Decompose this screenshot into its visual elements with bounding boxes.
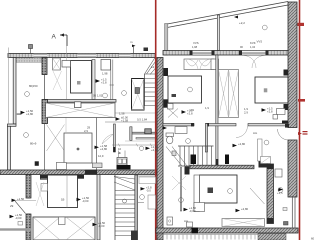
svg-text:12,9: 12,9 (98, 154, 104, 158)
small box lower-left room (18, 222, 23, 226)
door swing hall (102, 134, 114, 144)
svg-text:2,9: 2,9 (244, 111, 248, 115)
wardrobe band between bedrooms (219, 70, 239, 118)
svg-text:+2,8: +2,8 (267, 110, 273, 114)
red section line 1 (155, 0, 157, 240)
flag stairs16 (139, 145, 158, 152)
thin line y141 (125, 140, 155, 142)
svg-text:60: 60 (311, 237, 315, 240)
toilet corridor (167, 217, 173, 225)
niche under band (41, 175, 49, 180)
dim line y113 (113, 112, 157, 114)
small box stair left (172, 151, 176, 156)
svg-text:29: 29 (10, 204, 14, 208)
wall x98 lower (97, 175, 100, 240)
wall: interior hatched wall x44 upper (42, 58, 47, 75)
flag lw1 (21, 109, 34, 116)
dim ticks above party wall (144, 48, 149, 52)
bed bedroom1 (168, 76, 202, 103)
red tick right (298, 99, 305, 102)
dim line lower-left (16, 199, 36, 201)
wall: left exterior wall upper (13, 58, 16, 125)
kitchen cabinet (117, 158, 131, 170)
flag room3 (96, 78, 107, 85)
svg-text:2,9: 2,9 (190, 108, 194, 112)
label c7 (264, 140, 269, 145)
door diagonals bath (168, 109, 178, 118)
wall: top rooms divider x218 (217, 15, 219, 51)
door leaf lower-left room (15, 201, 26, 214)
shower tray right corridor (261, 157, 271, 164)
shelf box right of stair (139, 177, 156, 184)
label c9 (278, 188, 283, 193)
wall: inner hatched wall x265 (267, 164, 274, 224)
kitchen legs (119, 151, 126, 158)
bed lower-left room (48, 175, 78, 208)
flag stair foot (93, 221, 106, 228)
flag bedroom2 (262, 107, 273, 114)
label c3 (122, 91, 127, 96)
flag bed3 left (184, 206, 197, 213)
svg-text:+1,58: +1,58 (121, 119, 129, 123)
section line A (thin vertical) (66, 46, 68, 99)
svg-text:+2,80: +2,80 (241, 207, 249, 211)
svg-text:1,98: 1,98 (102, 72, 108, 76)
flag lw2 (10, 213, 23, 220)
roof diagonal double line (165, 2, 289, 29)
wall: hatched pier x38 (42, 100, 48, 124)
wall x130 (130, 127, 132, 141)
label c6 (186, 139, 191, 144)
nightstand lower-left bed (41, 184, 48, 192)
svg-text:db: db (118, 151, 122, 155)
counter block 2 (93, 163, 103, 168)
stair winder fan (114, 177, 135, 191)
wall: right exterior hatched (285, 2, 297, 228)
flag hall1 (95, 144, 108, 151)
parapet strip room1 (16, 58, 42, 63)
black box above band (35, 161, 39, 166)
dimension line y145 (112, 144, 155, 147)
bed room1 top-middle (71, 61, 92, 94)
wall stub party side lower (164, 99, 169, 107)
flag landing (116, 116, 129, 123)
curtain arcs window bedroom2 (244, 56, 265, 69)
wall x206 (205, 124, 207, 153)
door arc corridor gap (236, 126, 248, 138)
wall: divider x93 (92, 60, 95, 100)
wall: bottom band (156, 228, 298, 234)
tall box bottom right of stair (148, 195, 156, 209)
svg-text:1,58: 1,58 (119, 112, 125, 116)
svg-text:KVK: KVK (250, 41, 256, 45)
svg-text:-0,00: -0,00 (189, 209, 196, 213)
svg-text:0,5 1,84: 0,5 1,84 (137, 118, 148, 122)
red flag right mid (298, 131, 308, 135)
island square with dot (64, 133, 92, 163)
wall: below stairs y165 (185, 161, 269, 175)
svg-text:80|150: 80|150 (29, 84, 38, 88)
svg-text:1,98: 1,98 (192, 45, 198, 49)
svg-text:+2,2: +2,2 (239, 21, 245, 25)
flag landing lower (141, 185, 152, 192)
wall: party wall hatched (157, 58, 163, 240)
wall stub right side upper (284, 70, 289, 76)
closet niche left of bed (53, 58, 61, 70)
svg-text:-0,00: -0,00 (82, 199, 89, 203)
flag hall2 (84, 126, 167, 134)
bench bedroom3 (194, 203, 205, 212)
shower bathroom2 (275, 169, 282, 177)
wall y133 (130, 132, 157, 134)
svg-text:Am: Am (253, 131, 258, 135)
wall right of stairs dark (135, 175, 138, 240)
black stub right of bed (78, 175, 85, 179)
stair tread number (123, 199, 127, 203)
wall: right unit horizontal wall y51 (163, 51, 291, 56)
stairs upper (left unit) (145, 58, 157, 107)
black block right wall y121 (282, 121, 290, 126)
svg-text:1B: 1B (61, 198, 65, 202)
red marker top right (298, 23, 305, 26)
flag lower-left door (12, 197, 25, 202)
svg-text:Am: Am (184, 219, 189, 223)
door X corridor (172, 176, 186, 190)
counter blocks above band (56, 163, 66, 170)
wall: bedroom divider x216 (216, 55, 218, 168)
door X room2 (53, 71, 62, 90)
svg-text:VVS: VVS (193, 41, 199, 45)
svg-text:+2,8: +2,8 (187, 112, 193, 116)
flag bedroom1 (182, 109, 193, 116)
wall x114 (114, 124, 116, 152)
label c8 (179, 198, 184, 203)
wall y138 (136, 138, 157, 140)
svg-text:12: 12 (151, 65, 155, 69)
bathroom sink (175, 127, 187, 134)
landing line y122 (105, 121, 155, 123)
curtain arcs window bedroom1 (186, 60, 211, 66)
svg-text:-0,00: -0,00 (98, 224, 105, 228)
dim tick right of stair (138, 202, 145, 204)
white box above band (187, 222, 193, 227)
crossed twin beds bottom-left (33, 217, 95, 240)
wall stub party side upper (164, 68, 169, 76)
svg-text:+2,80: +2,80 (151, 148, 159, 152)
door arc right wall (278, 129, 289, 140)
bathroom toilet (166, 133, 174, 144)
red section line 2 (299, 0, 301, 240)
label circle bed3 (228, 189, 233, 194)
stair bottom black block (131, 231, 138, 240)
wall stub right side lower (284, 104, 289, 110)
label c1 (24, 133, 29, 138)
black wall seg on band (85, 170, 97, 175)
flag bath2 (277, 188, 283, 195)
flag lower-left hall (77, 196, 90, 203)
vanity right corridor (258, 139, 263, 161)
furniture box room2 (101, 60, 111, 71)
svg-text:80×9: 80×9 (30, 142, 37, 146)
bed bedroom2 (255, 77, 288, 103)
label circle bed1 (188, 87, 193, 92)
duct shaft dark (145, 129, 151, 134)
nightstand bedroom2 (277, 109, 286, 115)
closet bedroom1 with door arcs (184, 59, 214, 70)
label c10 (103, 93, 108, 98)
wall thin x110.7 (111, 60, 113, 100)
svg-text:-0,00: -0,00 (15, 216, 22, 220)
wardrobe long with X (46, 102, 116, 118)
wall: left wall jog (8, 124, 17, 126)
bathroom2 box (284, 222, 289, 226)
elevation flag top (234, 16, 245, 26)
nightstand left of bed (62, 61, 71, 68)
svg-text:+2,80: +2,80 (26, 112, 34, 116)
lift shaft (132, 79, 145, 111)
stairs right unit (166, 146, 214, 166)
svg-text:+2,8: +2,8 (101, 81, 107, 85)
door X lower-left room (36, 182, 44, 206)
svg-text:1,9: 1,9 (205, 106, 209, 110)
desk strip bedroom3 (194, 175, 200, 212)
label c4 (25, 92, 30, 97)
wire: pier wall line to band (44, 124, 46, 170)
wire: thin wall line below (44, 75, 46, 100)
svg-text:29: 29 (87, 126, 91, 130)
stairs lower (left unit) (115, 175, 135, 240)
black tread marker corridor (225, 155, 229, 165)
door leaves island room (47, 125, 65, 152)
nightstand bedroom1 (168, 104, 174, 110)
wall: band y170 full left unit (0, 170, 157, 175)
band corner thick (258, 234, 286, 240)
wall: left exterior wall lower (8, 126, 11, 170)
radiator tick left wall (16, 113, 22, 115)
svg-text:A: A (52, 34, 57, 41)
dimension line left edge (8, 48, 10, 125)
bed bedroom3 (200, 175, 238, 203)
flag stairs right (233, 142, 246, 147)
flag bed3 right (236, 207, 249, 212)
wall x216 black seg (216, 159, 219, 167)
railing ticks below band (156, 235, 265, 240)
wall: horizontal wall y100 (45, 100, 116, 103)
wall: right unit horizontal wall y124 (163, 123, 291, 126)
door swing bedroom3 (250, 188, 265, 204)
svg-text:+2,80: +2,80 (100, 147, 108, 151)
line y176 right of stair (138, 175, 156, 177)
svg-text:-0,0: -0,0 (146, 188, 151, 192)
black stub left of bed (40, 175, 48, 179)
chimney block above top wall (29, 45, 33, 49)
svg-text:2,9: 2,9 (84, 129, 88, 133)
wall: left unit top exterior wall (8, 54, 156, 58)
wall: hatched band left lower (26, 175, 31, 240)
terrace edge verticals above party wall (165, 24, 168, 56)
bench under window right (222, 219, 265, 227)
svg-text:+2,80: +2,80 (238, 142, 246, 146)
wall: bedroom3 left wall (180, 168, 181, 212)
wall: bottom-left band (0, 228, 31, 230)
label c5 (140, 195, 145, 200)
svg-text:05 1,01: 05 1,01 (93, 94, 103, 98)
wall line x96.5 hall (96, 118, 98, 171)
svg-text:1,34: 1,34 (250, 45, 256, 49)
niche box bedroom1 (211, 59, 219, 70)
label circle top room (262, 25, 267, 30)
label box 17 (283, 208, 287, 211)
section marker A (52, 33, 68, 46)
svg-text:VVS: VVS (257, 40, 263, 44)
radiator box bedroom2 (273, 115, 278, 120)
